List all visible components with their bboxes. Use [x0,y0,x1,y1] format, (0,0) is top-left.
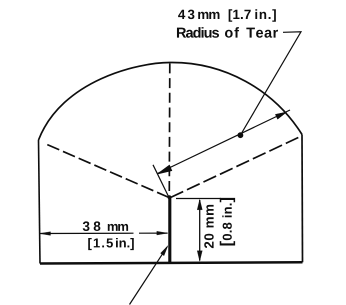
right arrowhead of 38 mm dimension [157,231,168,235]
up arrowhead of 20 mm dimension [197,199,202,210]
specimen outline: left edge [39,140,41,264]
label: 43 mm [1.7 in.] [178,9,276,21]
label: 20 mm (rotated) [204,205,213,248]
extension line at top of 20 mm dimension [176,198,221,200]
dot on radius line where leader attaches [238,132,244,138]
38 mm dimension line [40,232,168,234]
20 mm dimension line [199,200,201,261]
label: [0.8 in.] (rotated) [220,198,235,246]
dashed line from tear origin to right shoulder [171,138,299,198]
dashed centerline from arc apex to tear origin [168,64,171,192]
left arrowhead of 38 mm dimension [40,232,51,236]
specimen outline: arc top of test piece [39,62,303,140]
dashed line from tear origin to left shoulder [47,145,169,198]
leader pointing at tear slit from below [130,247,168,305]
thick tear slit line [168,197,171,264]
arrowhead at centre end of radius line [157,165,172,174]
arrowhead of slit leader [161,246,169,256]
label: Radius of Tear [177,27,278,38]
perpendicular tick at centre end of radius dimension [153,165,169,198]
leader from radius label to dot [241,32,302,135]
specimen outline: right edge [301,135,304,263]
label: 38 mm [83,221,128,231]
radius dimension line (43 mm radius of tear) [158,110,291,174]
specimen outline: bottom edge [40,262,303,263]
label: [1.5 in.] [88,238,134,250]
down arrowhead of 20 mm dimension [197,251,202,262]
junction blob at tear origin [168,195,172,199]
arrowhead at arc end of radius line [275,112,286,119]
